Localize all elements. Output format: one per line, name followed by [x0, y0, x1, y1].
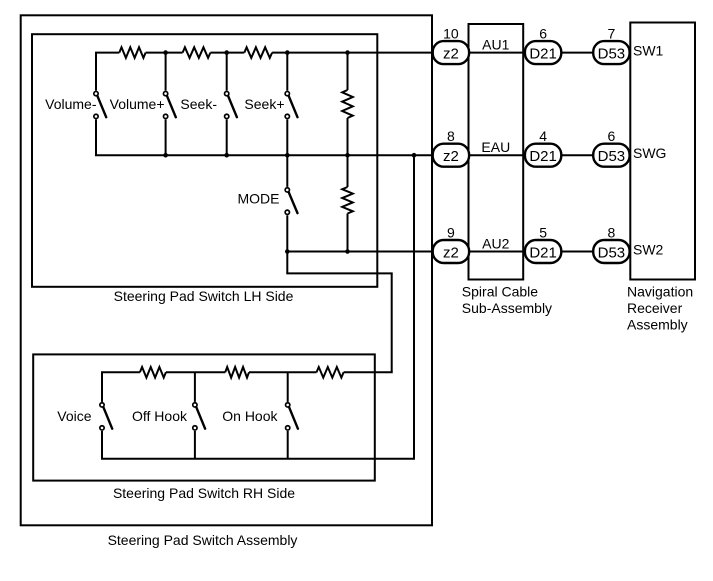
- switch On Hook: [289, 407, 298, 429]
- switch Volume-: [97, 96, 106, 117]
- junction dot: Volume+ on top bus: [163, 50, 168, 55]
- wire: resistor R4 lower stub: [347, 118, 349, 155]
- svg-text:4: 4: [539, 128, 547, 144]
- resistor R6 (between Voice and Off Hook): [140, 367, 166, 378]
- enclosure box: Steering Pad Switch LH Side: [32, 34, 377, 287]
- wire: down to RH top bus: [391, 273, 393, 372]
- wire: resistor R5 lower stub: [347, 214, 349, 252]
- svg-text:z2: z2: [443, 244, 459, 261]
- svg-text:Volume-: Volume-: [45, 96, 97, 112]
- svg-text:MODE: MODE: [238, 191, 280, 207]
- svg-text:6: 6: [608, 128, 616, 144]
- junction dot: resistor ladder on EAU bus: [345, 153, 350, 158]
- svg-text:EAU: EAU: [481, 139, 510, 155]
- wire: RH bottom bus (switch commons to EAU riser): [101, 458, 415, 460]
- wire: Seek- switch lower stub: [226, 119, 228, 155]
- svg-text:D53: D53: [598, 45, 626, 62]
- resistor R5 (EAU to AU2): [342, 187, 353, 214]
- wire: EAU D21 to D53: [560, 154, 594, 156]
- wire: MODE switch upper stub: [286, 155, 288, 187]
- wire: AU2 node down from MODE: [286, 252, 288, 274]
- switch Off Hook: [196, 407, 205, 429]
- connector D53 pin 6 (EAU): [593, 144, 629, 167]
- connector z2 pin 9 (AU2): [433, 240, 469, 263]
- svg-text:7: 7: [608, 26, 616, 42]
- enclosure box: Navigation Receiver Assembly: [630, 23, 695, 280]
- wire: top bus R1 to Volume+ node: [146, 52, 183, 54]
- wire: AU2 z2 to D21: [468, 251, 526, 253]
- svg-text:10: 10: [443, 26, 459, 42]
- svg-text:D21: D21: [529, 45, 557, 62]
- junction dot: Volume+ on EAU bus: [163, 153, 168, 158]
- svg-text:Off Hook: Off Hook: [132, 408, 188, 424]
- wire: EAU node down to RH bottom bus: [413, 155, 415, 459]
- resistor R3 (between Seek- and Seek+): [244, 47, 272, 58]
- svg-text:Sub-Assembly: Sub-Assembly: [462, 300, 552, 316]
- wire: AU1 z2 to D21: [468, 52, 526, 54]
- junction dot: Seek+ on top bus: [285, 50, 290, 55]
- wire: Seek+ switch lower stub: [286, 119, 288, 155]
- svg-text:8: 8: [608, 225, 616, 241]
- wire: AU2 node across to RH side: [286, 272, 392, 274]
- resistor R7 (between Off Hook and On Hook): [225, 367, 249, 378]
- svg-text:Assembly: Assembly: [627, 317, 688, 333]
- svg-text:Seek+: Seek+: [244, 96, 284, 112]
- svg-text:AU1: AU1: [482, 37, 509, 53]
- svg-text:Steering Pad Switch RH Side: Steering Pad Switch RH Side: [113, 485, 295, 501]
- switch MODE: [289, 192, 298, 213]
- connector D21 pin 4 (EAU): [525, 144, 561, 167]
- wire: Voice switch lower stub: [101, 431, 103, 459]
- svg-text:SWG: SWG: [633, 145, 666, 161]
- svg-text:8: 8: [447, 128, 455, 144]
- connector D21 pin 5 (AU2): [525, 240, 561, 263]
- switch Seek-: [228, 96, 237, 117]
- svg-text:6: 6: [539, 26, 547, 42]
- svg-text:Voice: Voice: [57, 408, 91, 424]
- enclosure box: Spiral Cable Sub-Assembly: [469, 24, 524, 280]
- switch Seek+: [289, 96, 298, 117]
- svg-text:5: 5: [539, 225, 547, 241]
- connector D53 pin 7 (AU1): [593, 41, 629, 64]
- resistor R2 (between Volume+ and Seek-): [183, 47, 211, 58]
- wire: On Hook switch upper stub: [287, 372, 289, 402]
- enclosure box: Steering Pad Switch RH Side: [33, 354, 375, 480]
- svg-text:D53: D53: [598, 244, 626, 261]
- svg-text:9: 9: [447, 225, 455, 241]
- junction dot: Seek- on EAU bus: [224, 153, 229, 158]
- junction dot: MODE on AU2 bus: [285, 249, 290, 254]
- wire: AU2 D21 to D53: [560, 251, 594, 253]
- wire: Volume+ switch lower stub: [165, 119, 167, 155]
- wire: AU2 bus (MODE to z2 pin 9): [287, 251, 434, 253]
- wire: Volume- switch upper stub: [95, 53, 97, 91]
- junction dot: Seek+/MODE on EAU bus: [285, 153, 290, 158]
- wire: top bus R2 to Seek- node: [210, 52, 244, 54]
- wire: Seek- switch upper stub: [226, 53, 228, 91]
- svg-text:SW1: SW1: [633, 43, 664, 59]
- wire: top bus Seek+ node to z2 pin 10 (AU1 net): [272, 52, 434, 54]
- svg-text:D21: D21: [529, 244, 557, 261]
- wire: EAU bus (switch common, Volume- to z2 pin 8): [95, 154, 434, 156]
- svg-text:Volume+: Volume+: [110, 96, 165, 112]
- svg-text:z2: z2: [443, 45, 459, 62]
- svg-text:Navigation: Navigation: [627, 284, 693, 300]
- junction dot: RH-side feed on EAU bus: [412, 153, 417, 158]
- enclosure box: Steering Pad Switch Assembly: [21, 15, 432, 525]
- svg-text:Steering Pad Switch LH Side: Steering Pad Switch LH Side: [114, 288, 294, 304]
- resistor R4 (AU1 to EAU): [342, 90, 353, 118]
- svg-text:Receiver: Receiver: [627, 300, 683, 316]
- wire: Voice switch upper stub: [101, 372, 103, 402]
- wire: Off Hook switch lower stub: [194, 431, 196, 459]
- svg-text:AU2: AU2: [482, 236, 509, 252]
- svg-text:On Hook: On Hook: [222, 408, 278, 424]
- wire: LH top bus segment (Volume- corner to R1): [95, 52, 119, 54]
- switch Voice: [103, 407, 112, 429]
- svg-text:Spiral Cable: Spiral Cable: [462, 284, 538, 300]
- wire: resistor R5 upper stub: [347, 155, 349, 187]
- connector D53 pin 8 (AU2): [593, 240, 629, 263]
- svg-text:Steering Pad Switch Assembly: Steering Pad Switch Assembly: [108, 532, 298, 548]
- wire: On Hook switch lower stub: [287, 431, 289, 459]
- connector z2 pin 10 (AU1): [433, 41, 469, 64]
- wire: Volume- switch lower stub: [95, 119, 97, 155]
- switch Volume+: [167, 96, 176, 117]
- svg-text:Seek-: Seek-: [180, 96, 217, 112]
- wire: Seek+ switch upper stub: [286, 53, 288, 91]
- junction dot: resistor R4 top on top bus: [345, 50, 350, 55]
- wire: RH top bus R8 to riser corner: [344, 371, 393, 373]
- wire: resistor R4 upper stub: [347, 53, 349, 90]
- svg-text:D21: D21: [529, 148, 557, 165]
- wire: MODE switch lower stub: [286, 215, 288, 251]
- wire: Volume+ switch upper stub: [165, 53, 167, 91]
- wire: RH top bus Voice corner to R6: [101, 371, 140, 373]
- wire: Off Hook switch upper stub: [194, 372, 196, 402]
- svg-text:z2: z2: [443, 148, 459, 165]
- wire: RH top bus R6 to Off Hook: [166, 371, 225, 373]
- connector z2 pin 8 (EAU): [433, 144, 469, 167]
- wire: AU1 D21 to D53: [560, 52, 594, 54]
- connector D21 pin 6 (AU1): [525, 41, 561, 64]
- resistor R8 (after On Hook): [317, 367, 344, 378]
- svg-text:SW2: SW2: [633, 242, 664, 258]
- wire: RH top bus R7 to R8: [249, 371, 317, 373]
- junction dot: resistor R5 on AU2 bus: [345, 249, 350, 254]
- junction dot: Seek- on top bus: [224, 50, 229, 55]
- wire: EAU z2 to D21: [468, 154, 526, 156]
- svg-text:D53: D53: [598, 148, 626, 165]
- resistor R1 (between Volume- and Volume+): [119, 47, 145, 58]
